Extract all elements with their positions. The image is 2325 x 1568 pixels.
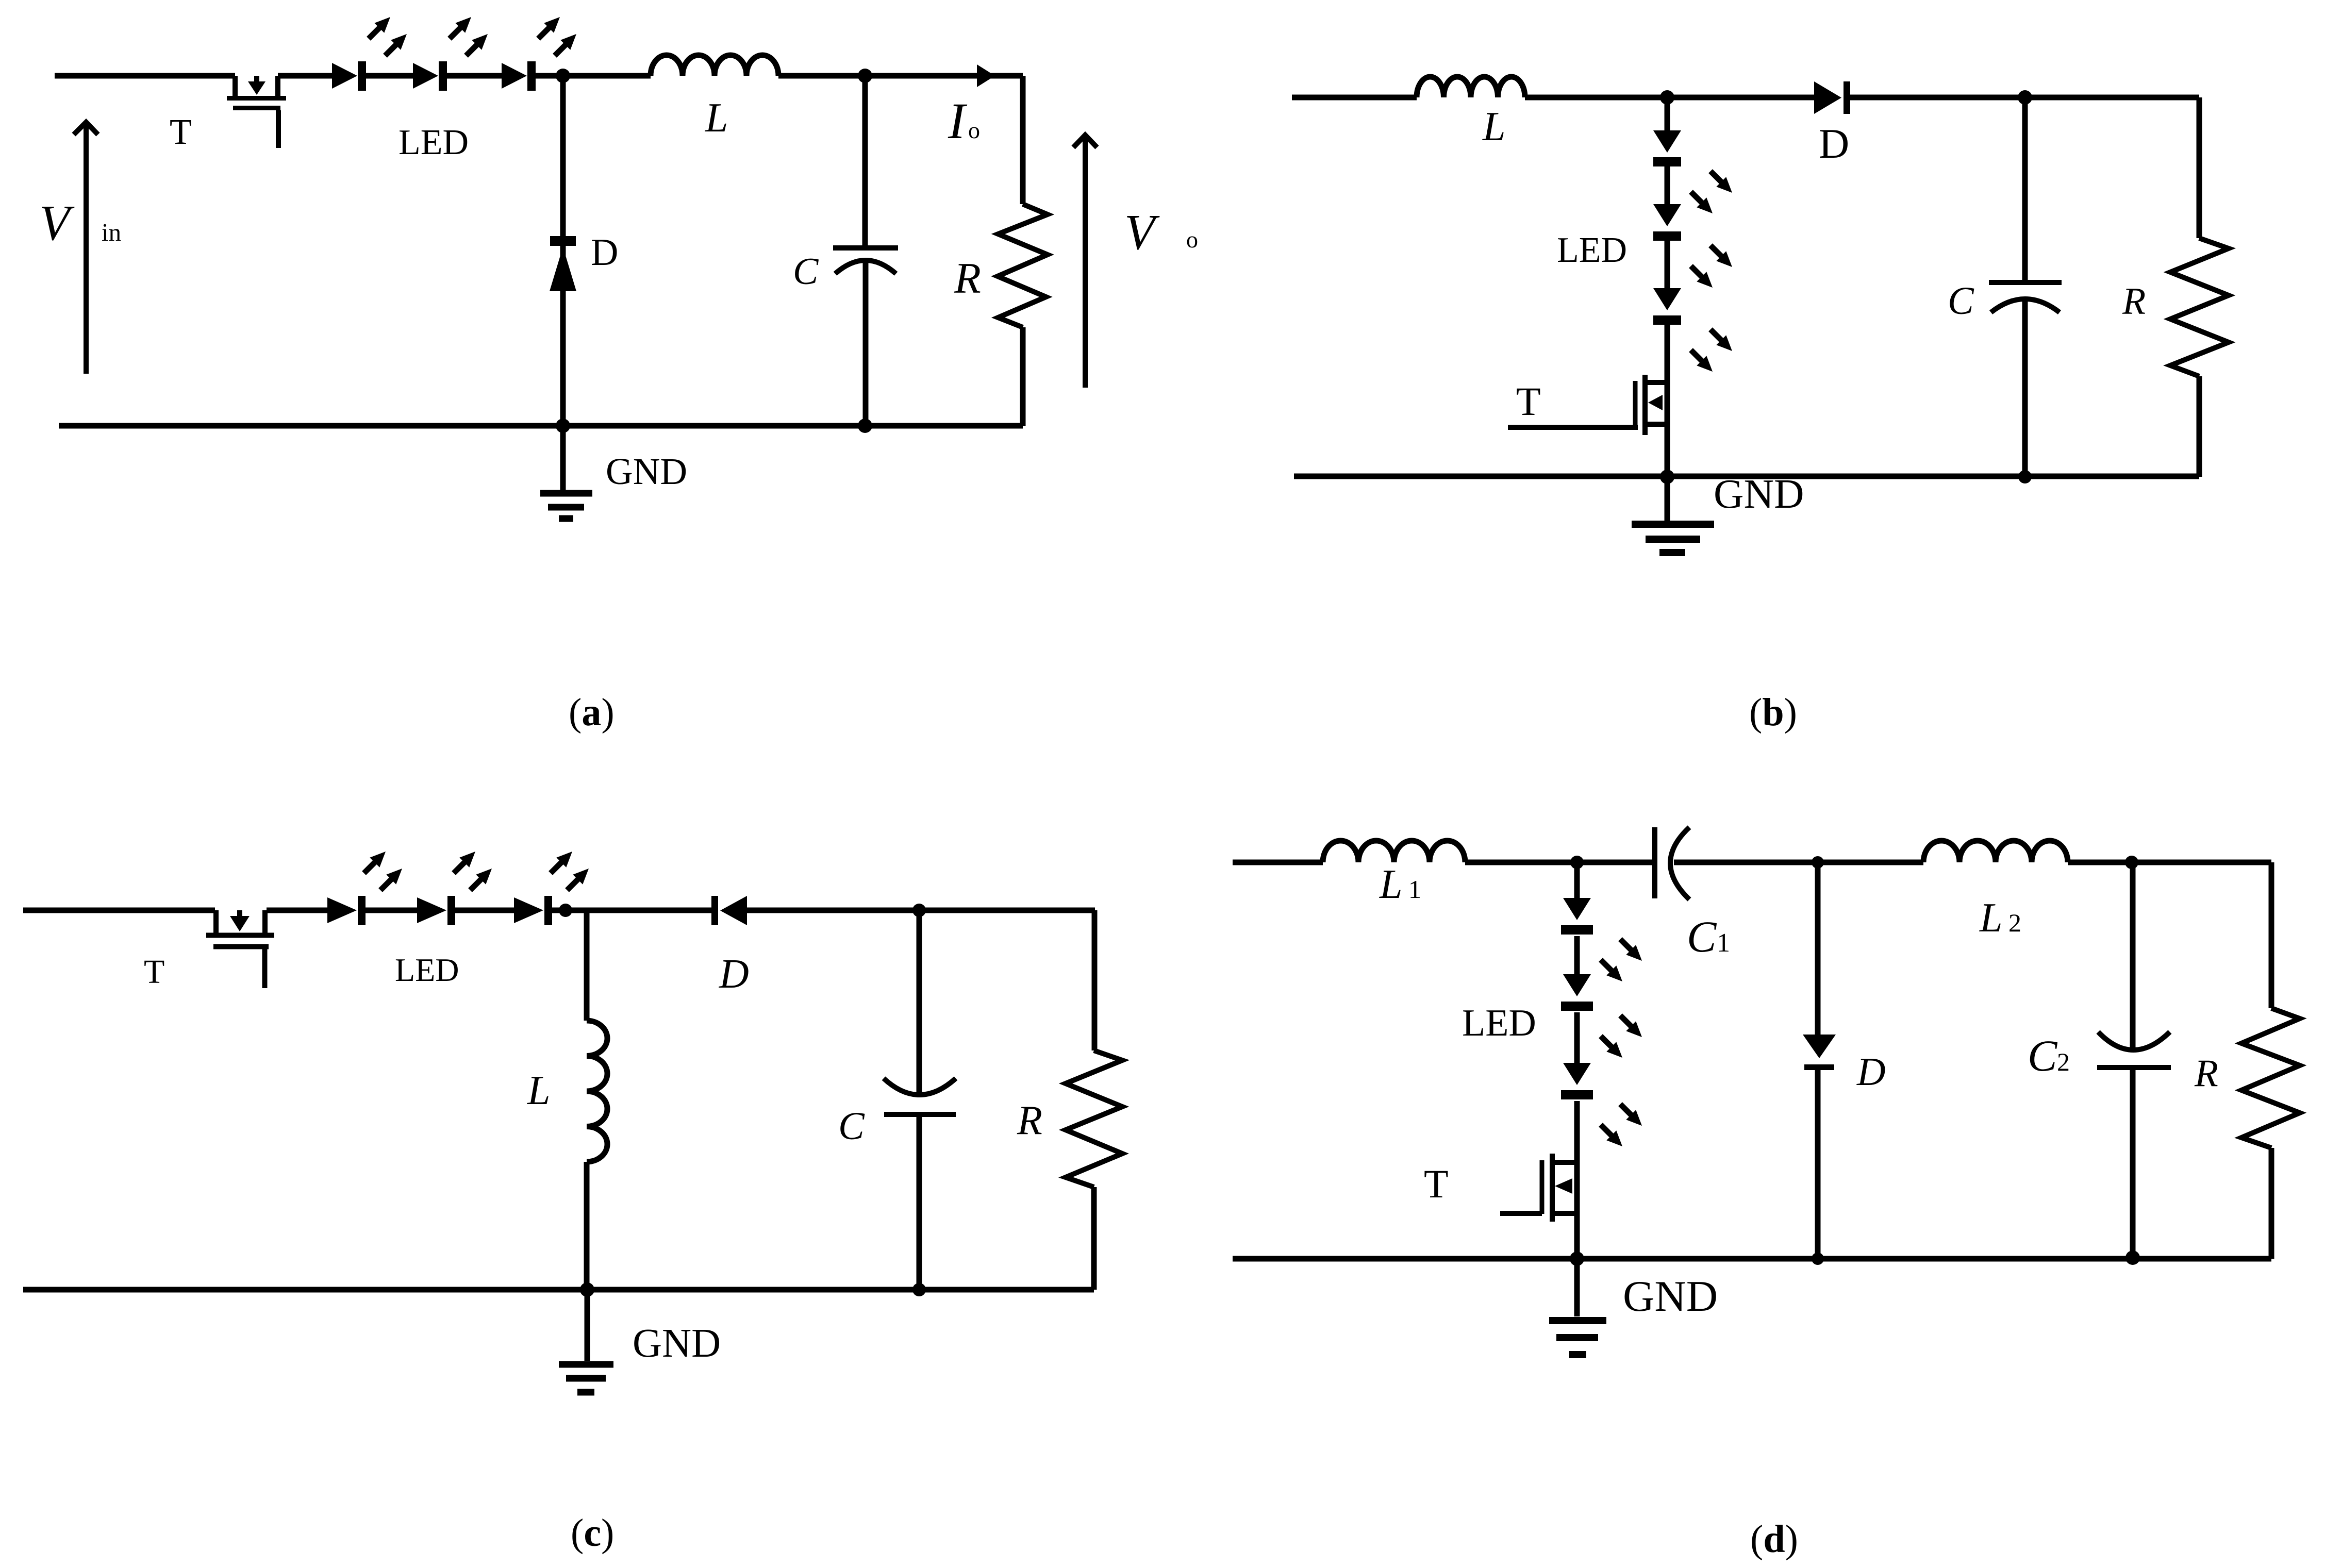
svg-text:2: 2 bbox=[2057, 1047, 2070, 1076]
svg-text:C: C bbox=[793, 251, 819, 293]
svg-text:C: C bbox=[2028, 1031, 2058, 1080]
svg-text:C: C bbox=[1687, 912, 1717, 961]
svg-text:in: in bbox=[102, 218, 121, 246]
svg-text:o: o bbox=[968, 117, 980, 143]
svg-text:C: C bbox=[838, 1105, 865, 1148]
svg-text:V: V bbox=[1124, 205, 1160, 260]
svg-text:T: T bbox=[1424, 1161, 1449, 1206]
svg-text:2: 2 bbox=[2008, 908, 2021, 937]
svg-text:L: L bbox=[527, 1068, 551, 1113]
svg-text:C: C bbox=[1948, 279, 1974, 323]
svg-text:1: 1 bbox=[1717, 928, 1730, 958]
svg-text:D: D bbox=[1856, 1049, 1886, 1094]
svg-text:R: R bbox=[1017, 1098, 1042, 1143]
svg-text:(b): (b) bbox=[1749, 691, 1797, 734]
svg-text:GND: GND bbox=[1714, 471, 1804, 517]
svg-text:T: T bbox=[1516, 379, 1541, 424]
svg-text:LED: LED bbox=[1557, 230, 1627, 270]
svg-text:GND: GND bbox=[606, 451, 687, 492]
svg-text:L: L bbox=[705, 95, 728, 141]
svg-text:T: T bbox=[170, 112, 192, 152]
svg-text:(a): (a) bbox=[569, 691, 615, 734]
svg-text:L: L bbox=[1482, 104, 1506, 149]
svg-text:D: D bbox=[1819, 120, 1849, 167]
svg-text:V: V bbox=[39, 195, 75, 251]
svg-text:D: D bbox=[591, 231, 618, 274]
svg-text:LED: LED bbox=[398, 123, 469, 162]
svg-text:L: L bbox=[1979, 895, 2003, 941]
svg-text:GND: GND bbox=[633, 1321, 721, 1366]
svg-text:1: 1 bbox=[1408, 875, 1421, 904]
svg-text:R: R bbox=[954, 254, 981, 303]
svg-text:T: T bbox=[144, 953, 164, 991]
svg-text:LED: LED bbox=[1462, 1002, 1536, 1044]
svg-text:(c): (c) bbox=[571, 1511, 614, 1555]
svg-text:D: D bbox=[719, 952, 749, 997]
svg-text:R: R bbox=[2194, 1052, 2218, 1095]
svg-text:(d): (d) bbox=[1750, 1517, 1798, 1561]
svg-text:R: R bbox=[2122, 280, 2146, 323]
svg-text:o: o bbox=[1186, 226, 1198, 253]
svg-text:I: I bbox=[948, 92, 968, 149]
svg-text:LED: LED bbox=[395, 952, 459, 988]
svg-text:L: L bbox=[1379, 862, 1403, 907]
svg-text:GND: GND bbox=[1623, 1272, 1718, 1321]
